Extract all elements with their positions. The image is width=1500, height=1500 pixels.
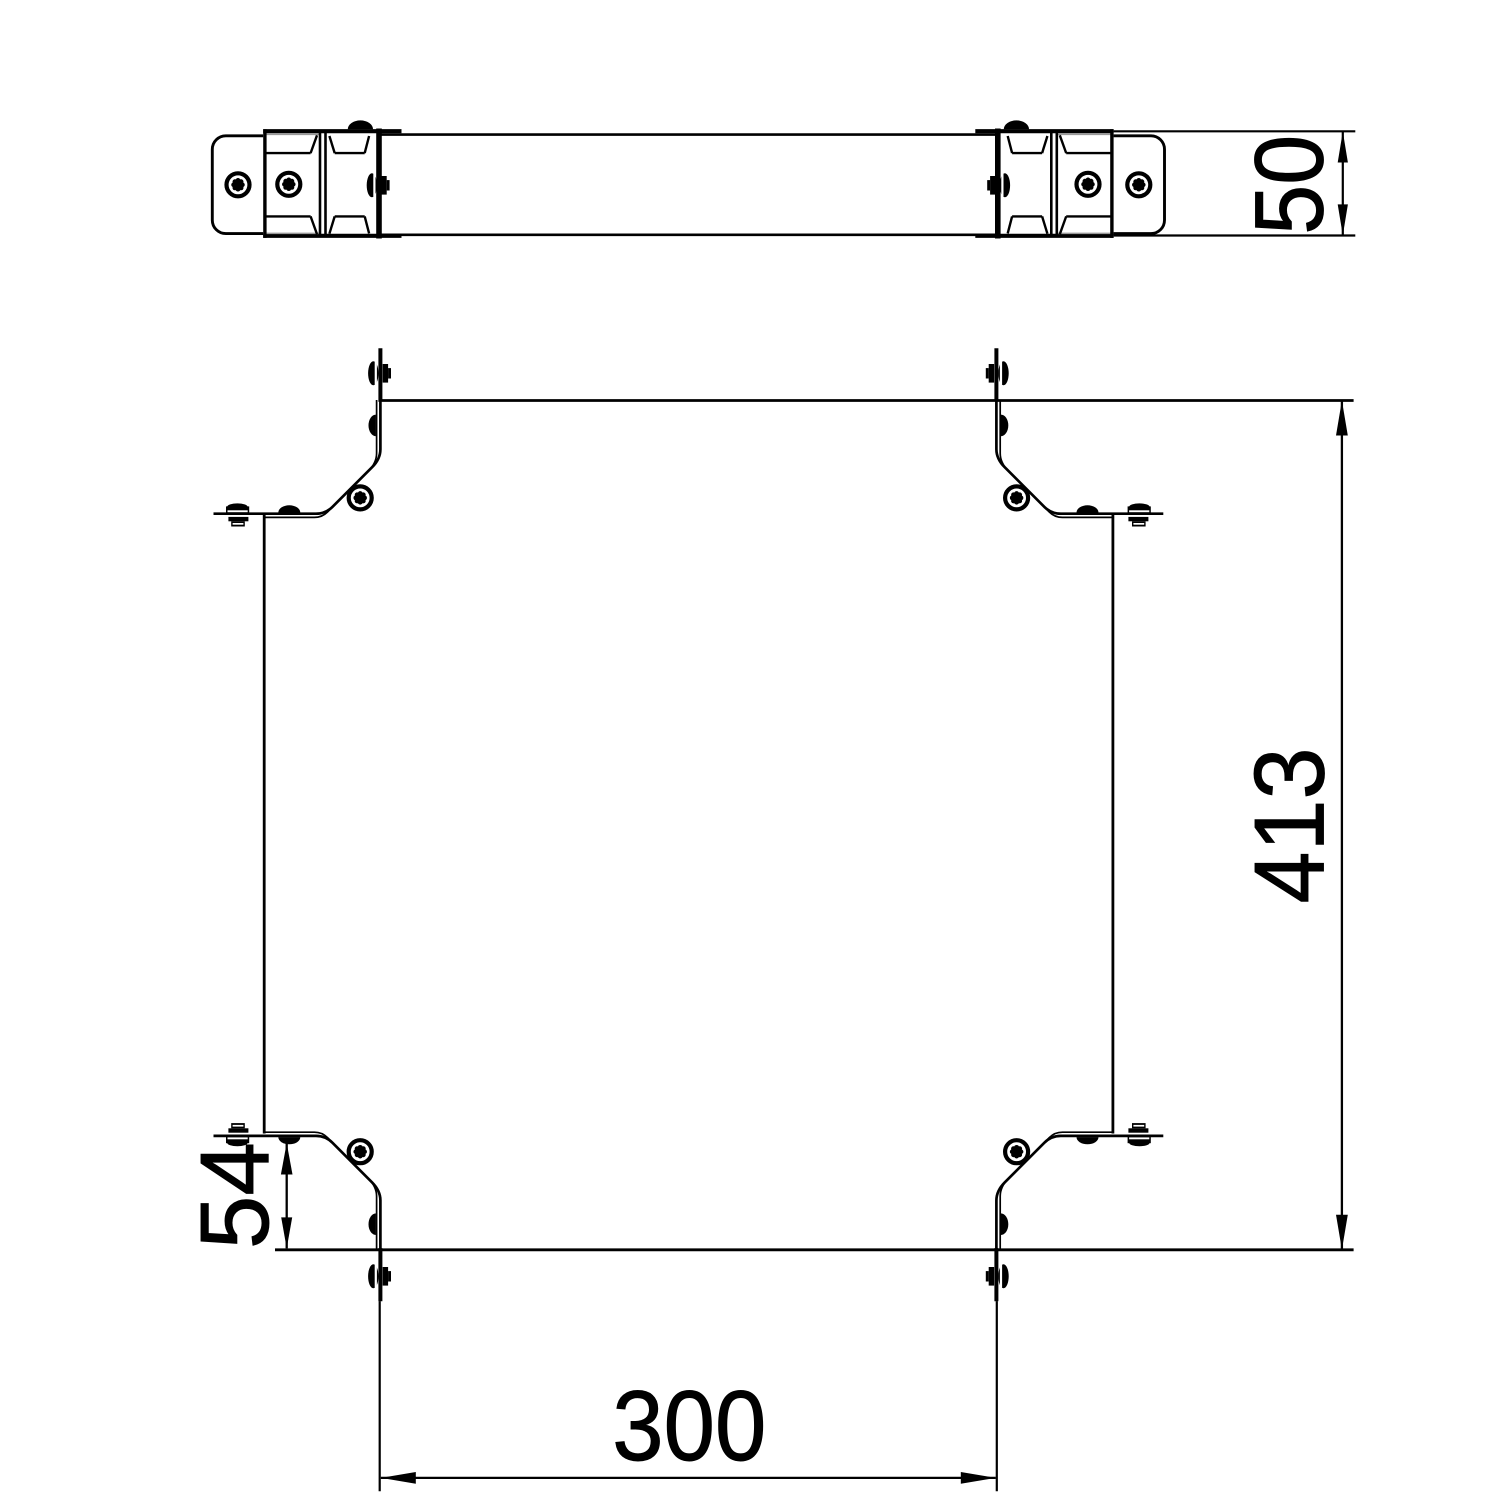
svg-text:54: 54	[180, 1142, 289, 1249]
svg-text:300: 300	[612, 1370, 766, 1481]
svg-text:50: 50	[1235, 135, 1344, 235]
svg-text:413: 413	[1233, 748, 1344, 904]
